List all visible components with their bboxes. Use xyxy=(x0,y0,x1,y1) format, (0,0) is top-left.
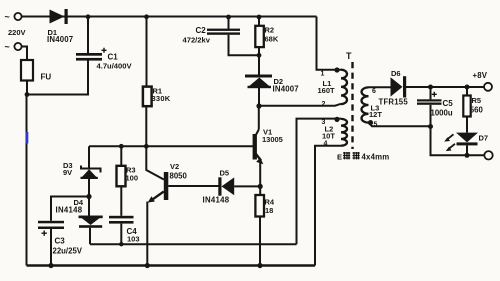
wire D7 bottom lead xyxy=(466,145,468,155)
diode D6 xyxy=(391,69,407,98)
svg-text:T: T xyxy=(346,51,352,61)
svg-text:+8V: +8V xyxy=(473,71,488,80)
wire L1 pin1 lead xyxy=(316,69,342,71)
node C2/R2 junction xyxy=(257,53,262,58)
wire V1 emitter to R4 xyxy=(259,162,261,196)
wire top rail xyxy=(22,16,317,18)
wire R2 bottom lead to D2 xyxy=(258,47,260,74)
svg-text:IN4007: IN4007 xyxy=(273,85,299,94)
transistor V2 8050 xyxy=(146,146,187,202)
transformer core dashed xyxy=(351,62,353,149)
svg-text:C1: C1 xyxy=(108,53,119,62)
diode D5 xyxy=(203,169,235,205)
svg-text:D6: D6 xyxy=(391,69,401,78)
svg-text:560: 560 xyxy=(470,106,484,115)
wire C1 bottom to junction xyxy=(27,60,88,94)
terminal AC input top xyxy=(5,12,22,22)
wire D3 to D4 xyxy=(88,179,90,216)
svg-text:13005: 13005 xyxy=(262,135,283,144)
capacitor C3 22u/25V xyxy=(38,221,83,256)
svg-text:C2: C2 xyxy=(196,26,207,35)
capacitor C4 103 xyxy=(109,216,140,244)
node C5/L3 pin5 junction xyxy=(428,124,433,129)
svg-text:4x4mm: 4x4mm xyxy=(362,153,390,162)
wire C5 top lead xyxy=(430,87,432,99)
diode D2 xyxy=(245,75,299,94)
svg-text:D5: D5 xyxy=(220,169,230,178)
resistor R4 xyxy=(255,195,275,217)
wire left rail blue scan artifact xyxy=(26,132,29,144)
wire C3 top lead xyxy=(51,197,89,221)
node C3/bottom rail junction xyxy=(48,263,53,268)
svg-text:9V: 9V xyxy=(63,168,72,177)
node FU/C1 junction xyxy=(25,92,30,97)
node C4/return junction xyxy=(119,242,123,246)
svg-text:FU: FU xyxy=(41,73,52,82)
svg-text:8050: 8050 xyxy=(170,172,188,181)
winding L1 160T xyxy=(318,67,348,108)
svg-text:D7: D7 xyxy=(479,134,489,143)
zener diode D3 9V xyxy=(63,161,101,179)
terminal +8V xyxy=(473,71,493,91)
resistor R1 xyxy=(143,87,171,107)
svg-text:R2: R2 xyxy=(265,26,275,35)
wire fuse to bottom node xyxy=(26,81,28,95)
svg-text:10T: 10T xyxy=(322,132,335,141)
wire C3 bottom lead xyxy=(50,229,52,266)
svg-text:IN4148: IN4148 xyxy=(203,196,230,205)
svg-text:472/2kv: 472/2kv xyxy=(183,36,211,45)
svg-text:18: 18 xyxy=(265,206,273,215)
wire output rail xyxy=(406,86,484,88)
wire bottom rail xyxy=(27,264,316,266)
capacitor C2 xyxy=(183,26,241,45)
node R2 top junction xyxy=(257,15,262,20)
svg-text:6: 6 xyxy=(372,88,376,95)
wire V1 base lead xyxy=(89,145,253,147)
svg-text:C5: C5 xyxy=(443,99,454,108)
svg-text:160T: 160T xyxy=(318,86,336,95)
svg-text:22u/25V: 22u/25V xyxy=(53,247,83,256)
svg-text:E: E xyxy=(337,153,342,162)
svg-text:~: ~ xyxy=(5,12,10,22)
svg-text:2: 2 xyxy=(322,101,326,108)
transistor V1 13005 xyxy=(253,106,283,164)
capacitor C5 1000u xyxy=(417,92,453,118)
node R4/bottom rail junction xyxy=(257,263,262,268)
diode D4 xyxy=(56,198,103,228)
wire R1 bottom lead xyxy=(145,106,147,146)
node D7/output bottom junction xyxy=(465,153,470,158)
node C1 top junction xyxy=(86,14,91,19)
svg-text:330K: 330K xyxy=(152,94,171,103)
wire R1 top lead xyxy=(146,17,148,87)
wire R2 top lead xyxy=(258,17,260,26)
node R3 top junction xyxy=(119,144,124,149)
resistor R2 xyxy=(255,26,279,48)
svg-text:5: 5 xyxy=(374,122,378,129)
winding L2 10T xyxy=(322,117,348,148)
wire D4 bottom lead xyxy=(89,228,91,244)
svg-text:V2: V2 xyxy=(170,162,179,171)
svg-text:4.7u/400V: 4.7u/400V xyxy=(97,62,133,71)
svg-text:R5: R5 xyxy=(472,96,482,105)
node R1 top junction xyxy=(144,14,149,19)
wire top rail corner down to transformer pin 1 xyxy=(316,17,318,70)
wire D3 top lead xyxy=(88,146,90,167)
wire C5 bottom lead xyxy=(430,105,432,127)
svg-text:103: 103 xyxy=(127,235,140,244)
svg-text:1000u: 1000u xyxy=(431,109,453,118)
wire R4 bottom lead xyxy=(259,217,261,266)
node C2 top junction xyxy=(226,15,231,20)
svg-text:12T: 12T xyxy=(369,110,382,119)
svg-text:220V: 220V xyxy=(8,28,26,37)
wire L2 pin3 lead xyxy=(297,119,342,245)
wire L2 pin4 lead xyxy=(315,146,341,266)
wire C4 bottom lead xyxy=(120,224,122,245)
node V2 collector junction xyxy=(144,144,149,149)
svg-text:TFR155: TFR155 xyxy=(379,98,409,107)
wire C1 top lead xyxy=(87,17,89,54)
svg-text:68K: 68K xyxy=(265,35,279,44)
wire L1 pin2 lead xyxy=(259,104,341,106)
node V2 emitter/bottom rail junction xyxy=(145,263,150,268)
wire L3 pin6 to D6 xyxy=(369,86,391,88)
svg-text:~: ~ xyxy=(5,42,10,52)
node R5 top junction xyxy=(465,85,470,90)
resistor R5 560 xyxy=(463,87,483,117)
wire D5 anode to emitter node xyxy=(234,185,260,187)
wire R5 to D7 xyxy=(466,117,468,133)
svg-text:IN4007: IN4007 xyxy=(47,35,73,44)
wire D2 to V1 collector node xyxy=(258,88,260,107)
wire return line y244 xyxy=(90,243,297,245)
wire V2 emitter down xyxy=(146,202,148,266)
wire from lower terminal to fuse xyxy=(22,47,27,61)
svg-text:100: 100 xyxy=(126,174,139,183)
wire R3 to C4 xyxy=(120,186,122,216)
capacitor C1 xyxy=(76,48,132,71)
resistor R3 xyxy=(117,146,139,186)
svg-text:IN4148: IN4148 xyxy=(56,206,83,215)
label core E磁芯4x4mm xyxy=(337,152,389,162)
terminal output negative xyxy=(484,151,492,159)
winding L3 12T xyxy=(362,87,409,128)
svg-text:1: 1 xyxy=(321,71,325,78)
wire left rail down xyxy=(26,95,28,266)
diode D1 xyxy=(47,9,73,44)
wire C2 bottom to R2 line xyxy=(229,35,260,56)
node D3/D4/C3 junction xyxy=(86,194,91,199)
node D5/R4 junction xyxy=(258,184,263,189)
svg-text:C3: C3 xyxy=(55,237,66,246)
node L1 pin2 junction xyxy=(256,103,261,108)
LED D7 xyxy=(444,133,488,152)
node C5 top junction xyxy=(428,85,433,90)
terminal AC input bottom xyxy=(5,42,22,52)
wire L3 pin5 to output bottom xyxy=(369,123,485,156)
wire C2 top lead xyxy=(228,17,230,29)
wire V2 base to D5 xyxy=(168,185,218,187)
fuse FU xyxy=(21,60,51,82)
